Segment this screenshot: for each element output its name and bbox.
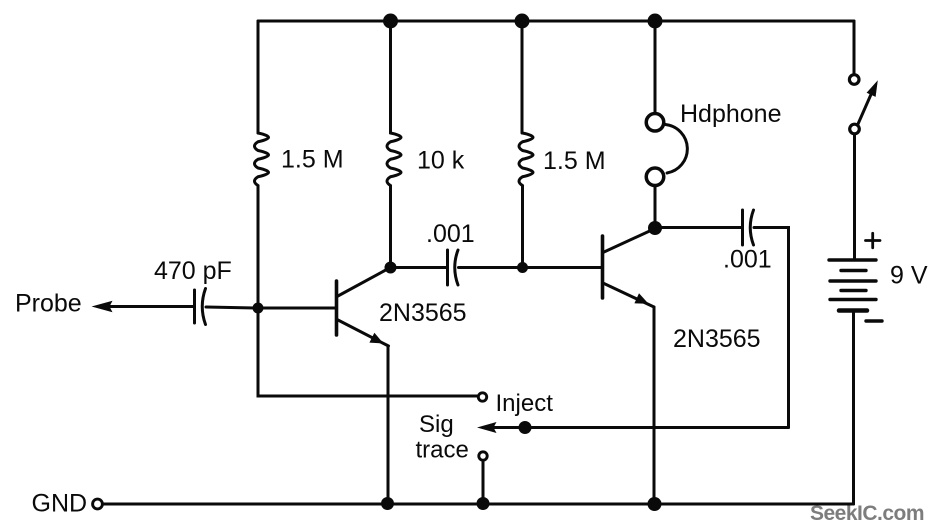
battery BT1 plate short 2: [841, 289, 866, 292]
probe arrow line: [110, 305, 194, 308]
battery plus sign: [866, 233, 881, 247]
wire battery negative down to rail: [852, 312, 855, 504]
wire 10k branch upper segment: [389, 21, 392, 133]
svg-text:.001: .001: [723, 246, 772, 274]
wire inject arrow line: [492, 426, 789, 429]
switch blade arrowhead: [867, 80, 878, 97]
battery BT1 plate long 3: [830, 298, 876, 301]
wire battery branch top: [853, 21, 856, 75]
battery BT1 bottom terminal plate: [839, 308, 867, 313]
transistor Q1 bar: [335, 281, 339, 335]
switch S1 bottom terminal circle: [850, 124, 860, 134]
wire C2 to Q2 base: [459, 266, 601, 269]
sig trace terminal circle: [479, 452, 487, 460]
headphone jack bottom circle: [646, 168, 664, 186]
junction node Q2 base: [517, 262, 528, 273]
inject arrowhead: [477, 422, 497, 433]
battery BT1 plate long 1: [829, 258, 876, 261]
svg-text:470 pF: 470 pF: [154, 257, 232, 285]
wire 1.5M right branch lower segment: [521, 186, 524, 268]
switch S1 top terminal circle: [849, 75, 859, 85]
wire Q1 emitter down: [387, 346, 390, 504]
svg-text:trace: trace: [416, 437, 469, 464]
capacitor C2 .001 right plate: [455, 250, 458, 285]
battery BT1 plate long 2: [830, 279, 876, 282]
junction node Q1 collector: [385, 262, 397, 274]
junction node top rail at 10k branch: [383, 14, 398, 29]
wire left branch upper segment: [257, 21, 260, 133]
junction node inject arrow line: [519, 421, 532, 434]
wire left branch lower segment to inject line: [258, 186, 477, 396]
wire bottom ground rail: [104, 503, 854, 506]
svg-text:Probe: Probe: [15, 290, 82, 318]
junction node top rail at headphone branch: [648, 14, 663, 29]
capacitor C3 .001 left plate: [741, 210, 744, 245]
transistor Q2 bar: [601, 236, 605, 298]
wire top rail: [258, 20, 854, 23]
wire switch to battery: [853, 134, 856, 258]
transistor Q2 collector: [604, 229, 654, 252]
wire coupling line Q1 collector to C2: [391, 266, 447, 269]
wire 10k branch lower segment: [389, 186, 392, 268]
svg-text:2N3565: 2N3565: [673, 325, 761, 353]
junction node bottom rail Q2 emitter: [648, 497, 662, 511]
switch S1 blade: [858, 91, 873, 124]
wire sig trace terminal down: [482, 461, 485, 504]
svg-text:1.5 M: 1.5 M: [543, 147, 606, 175]
resistor R3 1.5 M: [519, 133, 533, 186]
resistor R1 1.5 M: [255, 133, 269, 186]
resistor R2 10 k: [387, 133, 401, 186]
svg-text:Hdphone: Hdphone: [680, 100, 781, 128]
wire node to C3: [655, 226, 741, 229]
inject terminal circle: [478, 393, 486, 401]
junction node top rail at 1.5M branch: [515, 14, 530, 29]
capacitor C3 .001 right plate: [750, 210, 753, 245]
svg-text:2N3565: 2N3565: [379, 299, 467, 327]
junction node bottom rail sig trace: [477, 497, 490, 510]
junction node headphone bottom: [648, 221, 662, 235]
battery BT1 plate short 1: [841, 269, 866, 272]
svg-text:Sig: Sig: [419, 411, 454, 438]
Q1 emitter arrowhead: [369, 333, 383, 344]
headphone jack top circle: [646, 114, 664, 132]
svg-text:GND: GND: [32, 490, 88, 518]
transistor Q1 collector: [337, 269, 389, 297]
wire headphone bottom to node: [654, 187, 657, 228]
capacitor C1 470 pF right plate: [202, 289, 205, 325]
headphone earpiece arc: [666, 125, 688, 174]
wire 1.5M right branch upper segment: [521, 21, 524, 133]
battery minus sign: [866, 319, 882, 322]
transistor Q1 emitter: [337, 320, 389, 347]
wire C1 to Q1 base node: [206, 307, 258, 308]
svg-text:9 V: 9 V: [890, 262, 928, 290]
transistor Q2 emitter: [604, 284, 654, 308]
wire Q2 emitter down: [653, 307, 656, 504]
junction node Q1 base / probe: [253, 303, 264, 314]
wire C3 to right corner and down to inject arrow line: [754, 228, 789, 428]
svg-text:1.5 M: 1.5 M: [281, 146, 344, 174]
Q2 emitter arrowhead: [634, 293, 648, 304]
capacitor C1 470 pF left plate: [193, 290, 196, 323]
GND terminal circle: [93, 499, 103, 509]
svg-text:Inject: Inject: [496, 390, 554, 417]
probe arrowhead: [92, 301, 113, 313]
wire headphone branch top: [654, 21, 657, 112]
capacitor C2 .001 left plate: [446, 250, 449, 285]
junction node bottom rail Q1 emitter: [381, 497, 394, 510]
transistor Q1 base wire: [263, 307, 335, 310]
svg-text:10 k: 10 k: [417, 147, 465, 175]
svg-text:.001: .001: [426, 220, 475, 248]
